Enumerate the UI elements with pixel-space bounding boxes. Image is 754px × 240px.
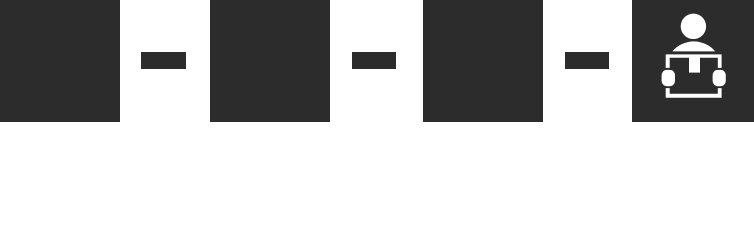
shoulders: [672, 41, 715, 51]
right hand knockout: [711, 68, 728, 88]
icon: person holding open box: [0, 0, 754, 122]
block 2: [210, 0, 331, 122]
block 3: [423, 0, 544, 122]
box outline: [666, 54, 722, 97]
dash 3: [565, 52, 609, 69]
dash 1: [141, 52, 186, 69]
block 1: [0, 0, 120, 122]
dash 2: [352, 52, 397, 69]
head: [681, 14, 706, 39]
block 4: [632, 0, 754, 122]
left hand knockout: [660, 68, 677, 88]
right hand: [713, 70, 726, 86]
left hand: [662, 70, 675, 86]
box flap notch: [689, 56, 700, 73]
